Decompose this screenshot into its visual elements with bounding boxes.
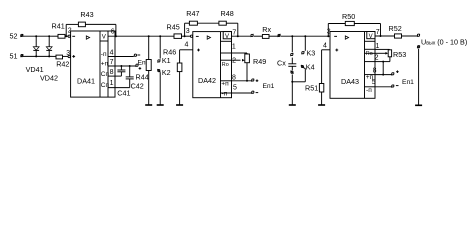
- wire DA43 output: [375, 35, 417, 37]
- pin 7 wire DA41 with En1 plus contact: [108, 64, 141, 70]
- svg-text:7: 7: [376, 29, 380, 36]
- svg-text:R44: R44: [136, 72, 149, 81]
- svg-text:52: 52: [10, 31, 18, 40]
- svg-text:+п: +п: [101, 61, 109, 68]
- pin 1 wire DA42: [232, 44, 248, 55]
- op-amp DA43: [330, 32, 375, 99]
- resistor R51: [305, 50, 330, 105]
- contact K4: [301, 63, 315, 82]
- wire +p DA42 to En1 plus: [232, 79, 259, 82]
- resistor R42: [53, 55, 70, 68]
- svg-text:Еп1: Еп1: [263, 83, 275, 90]
- wire input 51: [25, 55, 53, 57]
- svg-text:-п: -п: [366, 87, 372, 94]
- wire DA42 output: [232, 35, 251, 37]
- svg-text:4: 4: [110, 49, 114, 56]
- svg-text:K1: K1: [162, 56, 171, 65]
- diode VD41: [33, 35, 39, 57]
- svg-text:Cх: Cх: [277, 59, 286, 68]
- svg-text:4: 4: [323, 43, 327, 50]
- wire Rx to DA43: [281, 35, 330, 37]
- svg-text:8: 8: [373, 68, 377, 75]
- svg-text:K4: K4: [306, 63, 315, 72]
- ground (R51): [318, 104, 325, 106]
- capacitor C41: [117, 66, 130, 97]
- svg-text:Rх: Rх: [262, 25, 271, 34]
- contact output Uvyh: [417, 34, 420, 37]
- svg-text:2: 2: [232, 58, 236, 65]
- svg-text:4: 4: [185, 42, 189, 49]
- svg-text:С42: С42: [131, 81, 144, 90]
- terminal 51: [10, 52, 25, 61]
- pin 2 wire DA43 (wiper arrow): [375, 52, 389, 62]
- ground (R44): [145, 104, 152, 106]
- trimmer R53: [388, 50, 406, 59]
- op-amp DA41: [71, 31, 115, 97]
- svg-text:7: 7: [110, 59, 114, 66]
- svg-text:Еп1: Еп1: [402, 79, 414, 86]
- diode VD42: [46, 35, 52, 57]
- svg-text:R45: R45: [167, 23, 180, 32]
- svg-text:R47: R47: [186, 9, 199, 18]
- svg-text:6: 6: [111, 28, 115, 35]
- resistor R46: [177, 50, 193, 105]
- pin 8 wire DA43: [375, 57, 390, 76]
- svg-text:R51: R51: [305, 84, 318, 93]
- svg-text:VD42: VD42: [40, 74, 58, 83]
- svg-text:R50: R50: [342, 12, 355, 21]
- contact K2: [157, 68, 170, 105]
- terminal 52: [10, 31, 25, 40]
- contact (right of Rx): [278, 34, 281, 37]
- svg-text:R46: R46: [163, 48, 176, 57]
- pin 1 wire DA43: [375, 43, 390, 50]
- resistor R41: [52, 22, 69, 39]
- resistor R52: [389, 24, 402, 38]
- svg-text:K2: K2: [162, 68, 171, 77]
- wire -p DA42 to En1 minus: [232, 91, 259, 94]
- svg-text:DA41: DA41: [77, 76, 95, 85]
- resistor Rx: [254, 25, 278, 38]
- svg-text:-п: -п: [222, 90, 228, 97]
- svg-text:R52: R52: [389, 24, 402, 33]
- svg-text:+п: +п: [221, 80, 229, 87]
- wire bottom rail K4 to Cx line: [292, 81, 305, 83]
- svg-text:C41: C41: [117, 88, 130, 97]
- pin 2 input contact DA41: [68, 35, 70, 37]
- resistor R48 feedback: [197, 9, 238, 37]
- svg-text:1: 1: [110, 80, 114, 87]
- svg-text:8: 8: [232, 74, 236, 81]
- svg-text:K3: K3: [307, 48, 316, 57]
- svg-text:2: 2: [375, 55, 379, 62]
- svg-text:51: 51: [10, 52, 18, 61]
- svg-text:Rо: Rо: [222, 62, 229, 68]
- contact (left of Rx): [251, 34, 254, 37]
- wire -p DA43 to En1 minus: [375, 85, 399, 88]
- contact K1: [157, 35, 170, 65]
- op-amp DA42: [193, 32, 232, 98]
- wire DA41 output: [108, 35, 174, 37]
- svg-text:V: V: [225, 34, 229, 40]
- resistor R43 feedback: [65, 10, 117, 37]
- svg-text:R53: R53: [393, 50, 406, 59]
- svg-text:DA43: DA43: [341, 77, 359, 86]
- svg-text:7: 7: [232, 30, 236, 37]
- resistor R47 feedback: [184, 9, 200, 37]
- resistor R50 feedback: [327, 12, 381, 37]
- svg-text:8: 8: [110, 69, 114, 76]
- capacitor Cx with contact: [277, 35, 296, 105]
- svg-text:R42: R42: [56, 59, 69, 68]
- pin 8 wire DA41: [108, 75, 121, 77]
- ground (R46): [176, 104, 183, 106]
- pin 1 wire DA41: [108, 87, 130, 89]
- pin 2 wire DA42 (wiper arrow): [232, 58, 245, 65]
- svg-text:5: 5: [372, 79, 376, 86]
- svg-text:Rо: Rо: [366, 51, 373, 57]
- svg-text:DA42: DA42: [198, 76, 216, 85]
- svg-text:R43: R43: [80, 10, 93, 19]
- wire +p DA43 to En1 plus: [375, 70, 399, 75]
- svg-text:Сп: Сп: [101, 71, 110, 78]
- svg-text:3: 3: [186, 28, 190, 35]
- trimmer R49: [245, 54, 266, 81]
- ground (K2): [157, 104, 164, 106]
- contact output return: [417, 45, 420, 105]
- ground (Cx rail): [289, 104, 296, 106]
- pin 3 input contact DA42: [190, 35, 192, 37]
- svg-text:Uвых (0 - 10 В): Uвых (0 - 10 В): [421, 38, 467, 47]
- resistor R45: [167, 23, 191, 39]
- svg-text:5: 5: [233, 85, 237, 92]
- svg-text:-п: -п: [101, 51, 107, 58]
- contact K3: [301, 35, 315, 57]
- wire input 52: [25, 35, 52, 37]
- pin 3 input contact DA41: [68, 55, 70, 57]
- svg-text:1: 1: [232, 44, 236, 51]
- svg-text:1: 1: [376, 43, 380, 50]
- svg-text:R41: R41: [52, 22, 65, 31]
- capacitor C42: [126, 66, 144, 90]
- resistor R44: [136, 35, 152, 105]
- pin 4 wire DA41 with En1 minus contact: [108, 54, 140, 56]
- svg-text:V: V: [369, 34, 373, 40]
- svg-text:R48: R48: [221, 9, 234, 18]
- svg-text:R49: R49: [253, 57, 266, 66]
- ground (output return): [415, 104, 422, 106]
